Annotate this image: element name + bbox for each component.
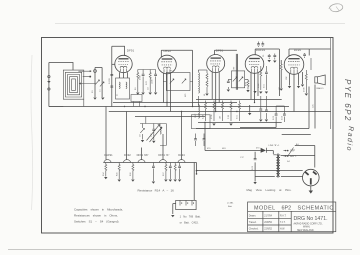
svg-text:AKRAD RADIO CORP. LTD,: AKRAD RADIO CORP. LTD, (294, 223, 323, 226)
svg-text:SCHEMATIC: SCHEMATIC (298, 205, 334, 211)
svg-text:DF91: DF91 (127, 49, 135, 53)
svg-text:1 No 769 Batt.: 1 No 769 Batt. (180, 214, 201, 218)
svg-text:BATT.: BATT. (290, 155, 297, 158)
svg-text:1M: 1M (279, 87, 281, 90)
svg-text:Batt: Batt (228, 205, 232, 208)
svg-text:1M: 1M (220, 116, 222, 119)
svg-text:OFF: OFF (290, 150, 295, 153)
svg-text:DK92: DK92 (164, 49, 172, 53)
svg-text:DK92: DK92 (124, 153, 131, 157)
svg-text:T.J.T.: T.J.T. (280, 222, 286, 224)
svg-text:2G: 2G (92, 90, 94, 93)
svg-text:20/8/52: 20/8/52 (264, 222, 272, 224)
svg-text:22/9/52: 22/9/52 (264, 229, 272, 231)
svg-text:Mag View Looking at Pins.: Mag View Looking at Pins. (247, 188, 292, 192)
svg-text:Drawn.: Drawn. (249, 214, 257, 217)
svg-text:100K: 100K (152, 79, 154, 84)
svg-text:DRG No 1471.: DRG No 1471. (294, 216, 328, 222)
svg-text:or Batt. C415.: or Batt. C415. (180, 220, 199, 224)
svg-text:PYE 6P2: PYE 6P2 (343, 79, 352, 122)
svg-text:DF91: DF91 (216, 49, 224, 53)
svg-text:0.0001: 0.0001 (109, 77, 111, 84)
svg-text:LINK “B”+1: LINK “B”+1 (269, 145, 281, 147)
svg-text:2.2M: 2.2M (258, 83, 260, 88)
svg-text:DL94: DL94 (178, 153, 185, 157)
svg-text:3.3K: 3.3K (228, 114, 230, 119)
svg-text:H.W.: H.W. (280, 229, 285, 231)
svg-text:WAIHI,: WAIHI, (303, 226, 311, 229)
svg-text:DAF91: DAF91 (104, 153, 113, 157)
svg-text:21/7/54: 21/7/54 (264, 215, 272, 217)
svg-text:2.2M: 2.2M (203, 114, 205, 119)
svg-text:470K: 470K (303, 87, 305, 92)
svg-text:470K: 470K (211, 114, 213, 119)
svg-text:470K: 470K (139, 75, 141, 80)
svg-text:DL94: DL94 (294, 48, 302, 52)
svg-text:or 4B1: or 4B1 (227, 202, 234, 205)
svg-text:MODEL: MODEL (254, 205, 276, 211)
svg-text:Resistance R14 A – 16: Resistance R14 A – 16 (138, 188, 175, 192)
svg-text:DF91 ‘RF’: DF91 ‘RF’ (137, 153, 149, 157)
svg-text:NEW ZEALAND.: NEW ZEALAND. (297, 229, 315, 232)
svg-text:DF91 ‘IF’: DF91 ‘IF’ (158, 153, 169, 157)
svg-text:Capacities shown in Micr: Capacities shown in Microfarads, (74, 208, 123, 212)
svg-text:Resistances shown in Ohm: Resistances shown in Ohms, (74, 214, 118, 218)
svg-text:6P2: 6P2 (282, 205, 292, 211)
svg-text:DAF91: DAF91 (256, 48, 266, 52)
svg-text:R.A.T.: R.A.T. (280, 214, 287, 217)
svg-text:OSC: OSC (195, 113, 197, 118)
svg-text:RADIO: RADIO (317, 87, 324, 90)
svg-text:Traced.: Traced. (249, 221, 257, 224)
svg-text:Checked.: Checked. (249, 229, 259, 231)
svg-text:Switches S1 – S4 (Ganged: Switches S1 – S4 (Ganged). (74, 220, 119, 224)
